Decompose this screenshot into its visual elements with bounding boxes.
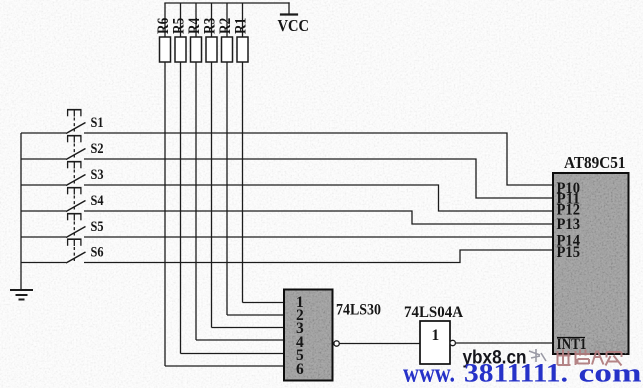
svg-text:R5: R5: [171, 18, 188, 34]
wire S3 to P12: [84, 185, 553, 211]
watermark www.3811111.com: [403, 359, 642, 388]
svg-text:3811111.: 3811111.: [464, 359, 568, 388]
svg-text:P13: P13: [557, 216, 581, 233]
svg-text:S5: S5: [91, 219, 104, 235]
svg-text:com: com: [579, 359, 642, 388]
wire S6 to P15: [84, 250, 553, 263]
svg-text:6: 6: [296, 361, 304, 378]
svg-text:S2: S2: [91, 141, 104, 157]
resistor R4: [191, 3, 202, 340]
svg-text:VCC: VCC: [278, 16, 310, 35]
wire S2 to P11: [84, 159, 553, 198]
resistor R6: [160, 3, 171, 366]
svg-text:www.: www.: [403, 359, 455, 388]
wire inverter out to INT1: [456, 342, 554, 344]
svg-text:S1: S1: [91, 115, 104, 131]
wire S4 to P13: [84, 211, 553, 224]
svg-text:AT89C51: AT89C51: [564, 153, 626, 172]
VCC power symbol: [288, 3, 290, 15]
inverter U2 74LS04A: [420, 321, 450, 364]
resistor R2: [222, 3, 233, 315]
switch S5: [21, 214, 86, 238]
svg-text:74LS04A: 74LS04A: [404, 304, 464, 321]
svg-text:S4: S4: [91, 193, 104, 209]
gate U1 74LS30: [284, 290, 333, 381]
IC U3 AT89C51: [553, 173, 629, 354]
svg-text:R3: R3: [202, 18, 219, 34]
svg-text:S6: S6: [91, 245, 104, 261]
wire R4 to 74LS30 pin4: [196, 339, 285, 341]
switch S4: [21, 188, 86, 212]
resistor R3: [206, 3, 217, 328]
wire R2 to 74LS30 pin2: [227, 314, 285, 316]
switch S6: [21, 239, 86, 263]
wire S1 to P10: [84, 133, 553, 185]
switch S1: [21, 110, 86, 134]
switch S3: [21, 162, 86, 186]
svg-text:R4: R4: [186, 18, 203, 34]
resistor R5: [175, 3, 186, 354]
faint watermark ghost on chip: [593, 342, 626, 354]
wire left common bus: [20, 133, 22, 290]
resistor R1: [237, 3, 248, 303]
wire R3 to 74LS30 pin3: [212, 327, 286, 329]
output bubble of inverter: [450, 340, 455, 345]
svg-text:R6: R6: [155, 18, 172, 34]
svg-text:1: 1: [432, 327, 440, 344]
wire R6 to 74LS30 pin6: [165, 365, 285, 367]
ground: [10, 290, 33, 300]
svg-text:S3: S3: [91, 167, 104, 183]
svg-text:R1: R1: [233, 18, 250, 34]
watermark logo mark: [529, 349, 546, 362]
watermark chinese characters: [558, 350, 622, 366]
svg-text:P15: P15: [557, 244, 581, 261]
wire 74LS30 out to inverter in: [339, 343, 420, 345]
switch S2: [21, 136, 86, 160]
svg-text:R2: R2: [217, 18, 234, 34]
output bubble of 74LS30: [334, 341, 339, 346]
wire R5 to 74LS30 pin5: [181, 353, 286, 355]
wire R1 to 74LS30 pin1: [243, 302, 286, 304]
wire top supply rail: [165, 2, 289, 4]
svg-text:INT1: INT1: [557, 336, 587, 353]
svg-text:74LS30: 74LS30: [336, 302, 381, 319]
wire S5 to P14: [84, 236, 553, 238]
